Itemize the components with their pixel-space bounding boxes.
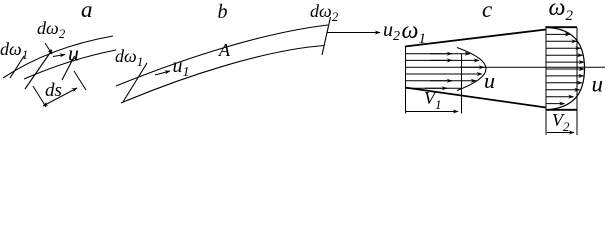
right row y62.1 — [546, 61, 584, 63]
ds dimension arrow — [43, 88, 77, 106]
section tick 2 (dω2) — [25, 50, 52, 89]
right row y89.8 — [546, 89, 580, 91]
svg-text:dω1: dω1 — [115, 46, 143, 69]
section tick right (b) — [322, 17, 331, 55]
right row y69 axis arrowhead — [546, 68, 584, 70]
section tick 3 — [62, 56, 75, 80]
left profile row y60.4 — [405, 59, 479, 61]
left profile row y53.7 — [405, 53, 470, 55]
right rect edge — [576, 28, 578, 136]
right row y48.2 — [546, 47, 581, 49]
svg-text:a: a — [81, 0, 93, 22]
right row y75.9 — [546, 75, 584, 77]
velocity arrow u2 — [327, 32, 380, 34]
left mean velocity rectangle edge — [461, 54, 463, 114]
svg-text:c: c — [482, 0, 492, 22]
velocity arrow u — [53, 55, 65, 57]
axis centerline — [405, 66, 605, 68]
left velocity parabola — [457, 48, 486, 91]
left profile row y74 — [405, 73, 482, 75]
svg-text:A: A — [218, 40, 231, 60]
ds witness line right — [74, 71, 86, 90]
svg-text:u: u — [68, 41, 79, 66]
svg-text:u: u — [592, 72, 604, 97]
section tick 1 (dω1) — [10, 56, 24, 78]
left profile row y80.8 — [405, 80, 476, 82]
svg-text:u: u — [484, 68, 495, 93]
svg-text:dω1: dω1 — [0, 39, 28, 62]
streamline lower curve — [24, 50, 116, 79]
V1 arrow — [406, 111, 458, 113]
right row y96.7 — [546, 96, 574, 98]
svg-text:b: b — [218, 1, 228, 23]
tube lower curve (b) — [121, 46, 324, 104]
velocity arrow u1 — [155, 71, 170, 75]
svg-text:ω2: ω2 — [549, 0, 574, 24]
left mean arrowhead row60.4 — [430, 59, 452, 61]
V2 arrow — [547, 132, 574, 134]
right row y34.4 — [546, 33, 570, 35]
wall bottom — [405, 88, 546, 108]
right rect top — [546, 26, 577, 28]
left profile row y88.3 — [405, 87, 461, 89]
svg-text:V2: V2 — [552, 110, 570, 134]
tube upper curve (b) — [116, 25, 328, 86]
ds witness line left — [33, 86, 46, 107]
right profile envelope — [546, 27, 585, 110]
left mean arrowhead row53.7 — [430, 53, 452, 55]
leader arrow from dω2 to section — [45, 43, 52, 54]
right row y55.2 — [546, 54, 583, 56]
right row y82.8 — [546, 82, 582, 84]
right row y41.3 — [546, 40, 577, 42]
right rect bottom — [546, 109, 577, 111]
svg-text:u2: u2 — [383, 19, 400, 44]
section tick left (b) — [123, 63, 147, 102]
streamline upper curve — [3, 36, 113, 78]
wall top — [405, 30, 546, 47]
svg-text:dω2: dω2 — [37, 18, 66, 41]
left mean arrowhead row88.3 — [425, 87, 447, 89]
section line 2 (right) — [545, 26, 547, 135]
svg-text:dω2: dω2 — [310, 1, 339, 24]
svg-text:ω1: ω1 — [402, 18, 426, 47]
svg-text:u1: u1 — [173, 55, 190, 80]
right row y103.6 — [546, 103, 565, 105]
axis arrowhead at left parabola vertex — [460, 66, 484, 68]
section line 1 (left) — [405, 47, 407, 114]
left mean arrowhead row80.8 — [430, 80, 452, 82]
